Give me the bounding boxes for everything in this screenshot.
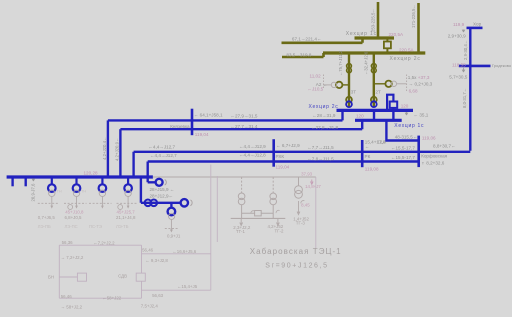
pale loads under main bus: [38, 197, 138, 210]
arc mark line4: [165, 180, 167, 186]
wire line 67,1: [282, 38, 363, 43]
bus Князевка: [191, 109, 194, 136]
svg-text:28+J12,9←: 28+J12,9←: [150, 194, 174, 199]
svg-text:ЛЭ-ПС: ЛЭ-ПС: [65, 224, 78, 229]
box right rail: [141, 245, 143, 298]
generator ТГ-1 branch: [238, 177, 245, 218]
svg-text:119,04: 119,04: [195, 132, 209, 137]
arrow ТГ-2: [277, 219, 280, 226]
arrow ТГ-3: [297, 201, 300, 215]
arc mark ТГ-1: [251, 211, 255, 214]
svg-text:ТГ-3: ТГ-3: [296, 220, 306, 225]
svg-text:←: ←: [365, 144, 370, 149]
svg-text:→ 58+J2,2: → 58+J2,2: [61, 304, 83, 309]
svg-text:← 35,1: ← 35,1: [414, 113, 429, 118]
svg-text:67,1→221,4←: 67,1→221,4←: [292, 36, 322, 41]
svg-text:←27,8→31,8: ←27,8→31,8: [311, 125, 339, 130]
svg-text:← 9,3+J2,8: ← 9,3+J2,8: [145, 258, 168, 263]
svg-text:←4,4→J12,9: ←4,4→J12,9: [239, 144, 266, 149]
bus generators: [231, 217, 286, 219]
arc mark right circle: [190, 200, 192, 206]
svg-text:→ 0,2+J0,3: → 0,2+J0,3: [409, 81, 433, 86]
feeder 1 LV winding: [49, 190, 55, 196]
box second line: [142, 253, 211, 255]
feeder 3 LV winding: [99, 190, 105, 196]
svg-text:Хехцир 1с: Хехцир 1с: [394, 123, 424, 129]
svg-text:ТН: ТН: [81, 190, 86, 194]
svg-text:28+J15,9 ←: 28+J15,9 ←: [150, 187, 175, 192]
wire stair 1: [107, 120, 109, 177]
svg-text:Хор: Хор: [473, 22, 482, 27]
wire drop to ТСН: [170, 203, 172, 208]
svg-text:←27,7→31,4: ←27,7→31,4: [230, 124, 258, 129]
svg-text:ТГ-2: ТГ-2: [275, 228, 285, 233]
svg-text:2,9-30,4←: 2,9-30,4←: [463, 40, 468, 60]
svg-text:8,45: 8,45: [301, 203, 310, 208]
svg-text:←32,4+J2,6: ←32,4+J2,6: [364, 51, 369, 75]
feeder 4 LV winding: [125, 190, 131, 196]
svg-text:Князевка: Князевка: [170, 124, 190, 129]
svg-text:7,5+J2,4: 7,5+J2,4: [141, 304, 159, 309]
autotransformer 2Т branch: [371, 53, 392, 107]
arrow pink load: [311, 180, 314, 185]
svg-text:56,36: 56,36: [62, 240, 74, 245]
arrow ТГ-1: [240, 219, 243, 226]
svg-text:119,9: 119,9: [453, 22, 465, 27]
svg-text:56,63: 56,63: [152, 293, 164, 298]
bus Хехцир 2с 220кВ: [323, 51, 425, 54]
transformer circles 35кВ pair: [145, 200, 158, 207]
svg-text:Хехцир 2с: Хехцир 2с: [390, 56, 421, 62]
generator ТГ-2 branch: [270, 177, 277, 218]
circle ТСН LV: [169, 213, 175, 219]
svg-text:2,9+30,9: 2,9+30,9: [448, 34, 466, 39]
svg-text:45+J25,7: 45+J25,7: [117, 210, 136, 215]
svg-text:83,5→319,8←: 83,5→319,8←: [286, 52, 316, 57]
bus ТЭЦ gray continuation: [153, 176, 316, 178]
load arrow ТЭЦ bus: [32, 179, 34, 182]
bus Гродеково: [459, 65, 491, 68]
svg-text:ПС-ТЭ: ПС-ТЭ: [89, 224, 102, 229]
box 15,4 line: [142, 289, 211, 291]
svg-text:←75,7+J11,2: ←75,7+J11,2: [338, 50, 343, 76]
wire line 3: [134, 152, 471, 177]
svg-text:20,9-J7,6: 20,9-J7,6: [31, 183, 36, 202]
svg-text:СДВ: СДВ: [118, 274, 127, 279]
transformer circle right: [181, 199, 188, 206]
svg-text:253-225,5←: 253-225,5←: [371, 8, 376, 32]
autotransformer 3Т branch: [336, 53, 352, 107]
svg-text:ЛЭ-ТБ: ЛЭ-ТБ: [116, 224, 129, 229]
breaker bus-coupler 220кВ: [384, 38, 391, 53]
svg-text:←4,4→J12,7: ←4,4→J12,7: [150, 153, 177, 158]
bus Хор: [467, 27, 483, 30]
load arrow Хехцир 110: [405, 112, 407, 115]
svg-text:120: 120: [401, 103, 409, 108]
wire bus tie right: [392, 110, 394, 120]
svg-text:←27,9→31,5: ←27,9→31,5: [230, 114, 258, 119]
svg-text:11,02: 11,02: [310, 73, 322, 78]
transformer terminal circle line4: [156, 179, 163, 186]
svg-text:14,8+J7: 14,8+J7: [305, 184, 321, 189]
svg-text:171-226,5←: 171-226,5←: [411, 4, 416, 28]
svg-text:т 8,2+32,6: т 8,2+32,6: [422, 161, 445, 166]
feeder 4: [124, 177, 132, 192]
wire line 4: [148, 162, 419, 183]
tie with breaker: [242, 211, 274, 216]
load arrow Гродеково: [462, 68, 464, 72]
bus РК: [361, 140, 364, 167]
wire Т-branch 35кВ: [141, 177, 181, 203]
svg-text:←4,4→J12,8: ←4,4→J12,8: [239, 153, 266, 158]
svg-text:←7,8→J11,5: ←7,8→J11,5: [307, 156, 334, 161]
svg-text:48-315,5←: 48-315,5←: [395, 135, 418, 140]
svg-text:←7,7→J11,5: ←7,7→J11,5: [307, 145, 334, 150]
wire 220kV line 253 to Хехцир 1с: [377, 2, 380, 38]
svg-text:21,1+J4,8: 21,1+J4,8: [116, 215, 136, 220]
wire line 2 Князевка-Хехцир: [120, 120, 362, 129]
svg-text:←58+J22: ←58+J22: [102, 295, 121, 300]
svg-text:ТН: ТН: [57, 190, 62, 194]
svg-text:←28→31,9: ←28→31,9: [312, 113, 336, 118]
feeder 3: [99, 177, 107, 192]
box bottom line: [59, 297, 141, 299]
arc mark ТГ-2: [276, 210, 280, 213]
svg-text:РХК: РХК: [276, 154, 285, 159]
svg-text:0,9+J1: 0,9+J1: [167, 233, 181, 238]
wire line 1 Князевка-Хехцир: [108, 110, 343, 120]
box left rail: [58, 245, 60, 298]
svg-text:119,08: 119,08: [365, 167, 379, 172]
wire Хор-Гродеково-Корфовская: [469, 28, 471, 151]
svg-text:1,5х +37,3: 1,5х +37,3: [408, 75, 430, 80]
svg-text:Гродеково: Гродеково: [492, 63, 512, 68]
svg-text:←7,2+J2,2: ←7,2+J2,2: [93, 241, 115, 246]
svg-text:←J10,5: ←J10,5: [307, 87, 323, 92]
svg-text:37,93: 37,93: [301, 171, 313, 176]
load of ТСН: [165, 220, 178, 231]
bus РХК: [272, 139, 275, 167]
svg-text:0,7+J6,5: 0,7+J6,5: [38, 215, 56, 220]
svg-text:←16,6+J5,6: ←16,6+J5,6: [172, 249, 196, 254]
feeder 1: [48, 177, 56, 192]
svg-text:45+J10,8: 45+J10,8: [65, 210, 84, 215]
svg-text:4,2+J20,9←: 4,2+J20,9←: [115, 138, 120, 161]
svg-text:Корфовская: Корфовская: [421, 154, 447, 159]
svg-text:РК: РК: [365, 154, 371, 159]
svg-text:Sг=90+J126,5: Sг=90+J126,5: [265, 263, 328, 270]
svg-text:119,04: 119,04: [276, 164, 290, 169]
wire 220kV line 171 to Хехцир 2с: [417, 3, 420, 53]
arrowhead ТСН load: [170, 230, 173, 233]
bus Хехцир 1с 220кВ: [355, 36, 395, 39]
arc mark ТГ-3: [301, 201, 305, 204]
svg-text:2Т: 2Т: [375, 90, 381, 95]
svg-text:ТГ-1: ТГ-1: [236, 229, 246, 234]
generator ТГ-3 branch: [295, 177, 303, 198]
winding 110кВ of 3Т: [346, 101, 352, 107]
feeder 2: [73, 177, 81, 192]
bus Хабаровская ТЭЦ-1 110кВ: [7, 175, 153, 178]
svg-text:← 6,7+J2,9: ← 6,7+J2,9: [276, 143, 300, 148]
bus Хехцир 2с 110кВ: [337, 109, 414, 112]
svg-text:←15,5-17,7: ←15,5-17,7: [391, 155, 415, 160]
tertiary load of 2Т: [391, 75, 406, 93]
svg-text:Хехцир 1с: Хехцир 1с: [346, 31, 377, 37]
load arrow Хор: [462, 30, 464, 33]
svg-text:120,28: 120,28: [84, 171, 98, 176]
arrowheads pale loads: [50, 206, 129, 209]
svg-text:Хабаровская ТЭЦ-1: Хабаровская ТЭЦ-1: [250, 247, 342, 256]
svg-text:ЛЭ-ПБ: ЛЭ-ПБ: [38, 224, 51, 229]
winding 110кВ of 2Т: [371, 101, 377, 107]
wire bus tie left: [373, 110, 375, 120]
svg-text:БН: БН: [48, 275, 54, 280]
svg-text:119,06: 119,06: [422, 136, 436, 141]
pale pink verticals: [211, 165, 316, 291]
svg-text:4,2+J20,4←: 4,2+J20,4←: [102, 137, 107, 160]
svg-text:←15,5-17,7: ←15,5-17,7: [391, 145, 415, 150]
breaker bypass 110кВ: [387, 95, 397, 111]
svg-text:→ 7,2+J2,2: → 7,2+J2,2: [61, 255, 84, 260]
stub tick 1: [11, 177, 13, 186]
svg-text:5,7+30,5: 5,7+30,5: [449, 75, 467, 80]
svg-text:118,55: 118,55: [452, 62, 466, 67]
svg-text:220,5А: 220,5А: [389, 32, 404, 37]
svg-text:Хехцир 2с: Хехцир 2с: [309, 104, 339, 110]
breaker СДВ: [136, 273, 145, 281]
wire line 83,5: [282, 53, 324, 57]
svg-text:6,8+J0,5: 6,8+J0,5: [65, 215, 83, 220]
bus Хехцир 1с 110кВ: [355, 119, 402, 122]
svg-text:8,8+30,7←: 8,8+30,7←: [433, 144, 456, 149]
bus Корфовская: [417, 136, 420, 168]
svg-text:56,46: 56,46: [61, 294, 73, 299]
stub tick 2: [25, 177, 27, 186]
svg-text:6,68: 6,68: [409, 88, 418, 93]
svg-text:220,5А: 220,5А: [399, 47, 414, 52]
svg-text:←15,4+J5: ←15,4+J5: [177, 284, 198, 289]
svg-text:8,0-31,7←: 8,0-31,7←: [462, 88, 467, 108]
box 6кВ top line: [59, 244, 141, 246]
svg-text:3Т: 3Т: [351, 90, 357, 95]
feeder 2 LV winding: [73, 190, 79, 196]
wire Хехцир-Корфовская: [386, 120, 418, 140]
tertiary load of 3Т: [324, 75, 337, 90]
svg-text:←4,4→J12,7: ←4,4→J12,7: [148, 144, 175, 149]
breaker БН: [59, 273, 86, 281]
wire stair 2: [119, 129, 121, 177]
svg-text:56,46: 56,46: [142, 248, 154, 253]
circle ТСН: [168, 208, 176, 216]
svg-text:120: 120: [356, 113, 364, 118]
svg-text:← 64,1+J58,1: ← 64,1+J58,1: [194, 113, 223, 118]
